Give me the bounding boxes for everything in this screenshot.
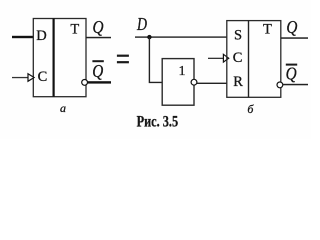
inverter U2 (NOT gate box) bbox=[162, 59, 194, 106]
SR flip-flop U3 (block b) body bbox=[227, 21, 281, 98]
svg-text:Рис. 3.5: Рис. 3.5 bbox=[137, 113, 179, 130]
wire junction down to inverter input bbox=[149, 37, 162, 82]
D flip-flop U1 (block a) body bbox=[33, 19, 86, 97]
wire Q output of flip-flop b bbox=[281, 37, 308, 39]
svg-text:S: S bbox=[234, 28, 242, 44]
inversion bubble on Q̄ output (U1) bbox=[82, 80, 88, 86]
wire D input of flip-flop a bbox=[12, 36, 34, 38]
svg-text:C: C bbox=[38, 69, 48, 85]
dynamic input triangle on C (U1) bbox=[28, 74, 34, 82]
U1 divider line bbox=[52, 19, 54, 97]
svg-text:1: 1 bbox=[179, 64, 186, 79]
inversion bubble on Q̄ output (U3) bbox=[277, 82, 283, 88]
svg-text:Q: Q bbox=[286, 17, 297, 37]
svg-text:R: R bbox=[233, 74, 243, 90]
U3 divider line bbox=[248, 21, 250, 98]
svg-text:C: C bbox=[233, 50, 243, 66]
svg-text:T: T bbox=[70, 21, 79, 37]
svg-text:Q: Q bbox=[93, 17, 104, 37]
svg-text:Q: Q bbox=[92, 61, 103, 81]
overbar of Q̄ (b) bbox=[286, 64, 297, 66]
svg-text:D: D bbox=[136, 14, 147, 34]
wire Q̄ output of flip-flop b bbox=[283, 84, 308, 86]
svg-text:T: T bbox=[263, 22, 272, 38]
wire Q output of flip-flop a bbox=[86, 37, 111, 39]
svg-text:Q: Q bbox=[286, 64, 297, 84]
inversion bubble on U2 output bbox=[191, 79, 197, 85]
junction dot on D wire bbox=[147, 35, 151, 39]
wire D to S input (b) bbox=[135, 36, 227, 37]
wire U2 output to R input bbox=[197, 83, 227, 84]
svg-text:б: б bbox=[247, 102, 254, 116]
svg-text:D: D bbox=[36, 28, 46, 44]
wire C input of flip-flop a bbox=[12, 77, 28, 78]
overbar of Q̄ (a) bbox=[92, 60, 103, 62]
svg-text:а: а bbox=[60, 101, 66, 115]
wire C stub input (b) bbox=[208, 58, 223, 59]
dynamic input triangle on C (U3) bbox=[223, 54, 228, 62]
wire Q̄ output of flip-flop a bbox=[88, 81, 112, 83]
equals sign bbox=[117, 55, 129, 64]
